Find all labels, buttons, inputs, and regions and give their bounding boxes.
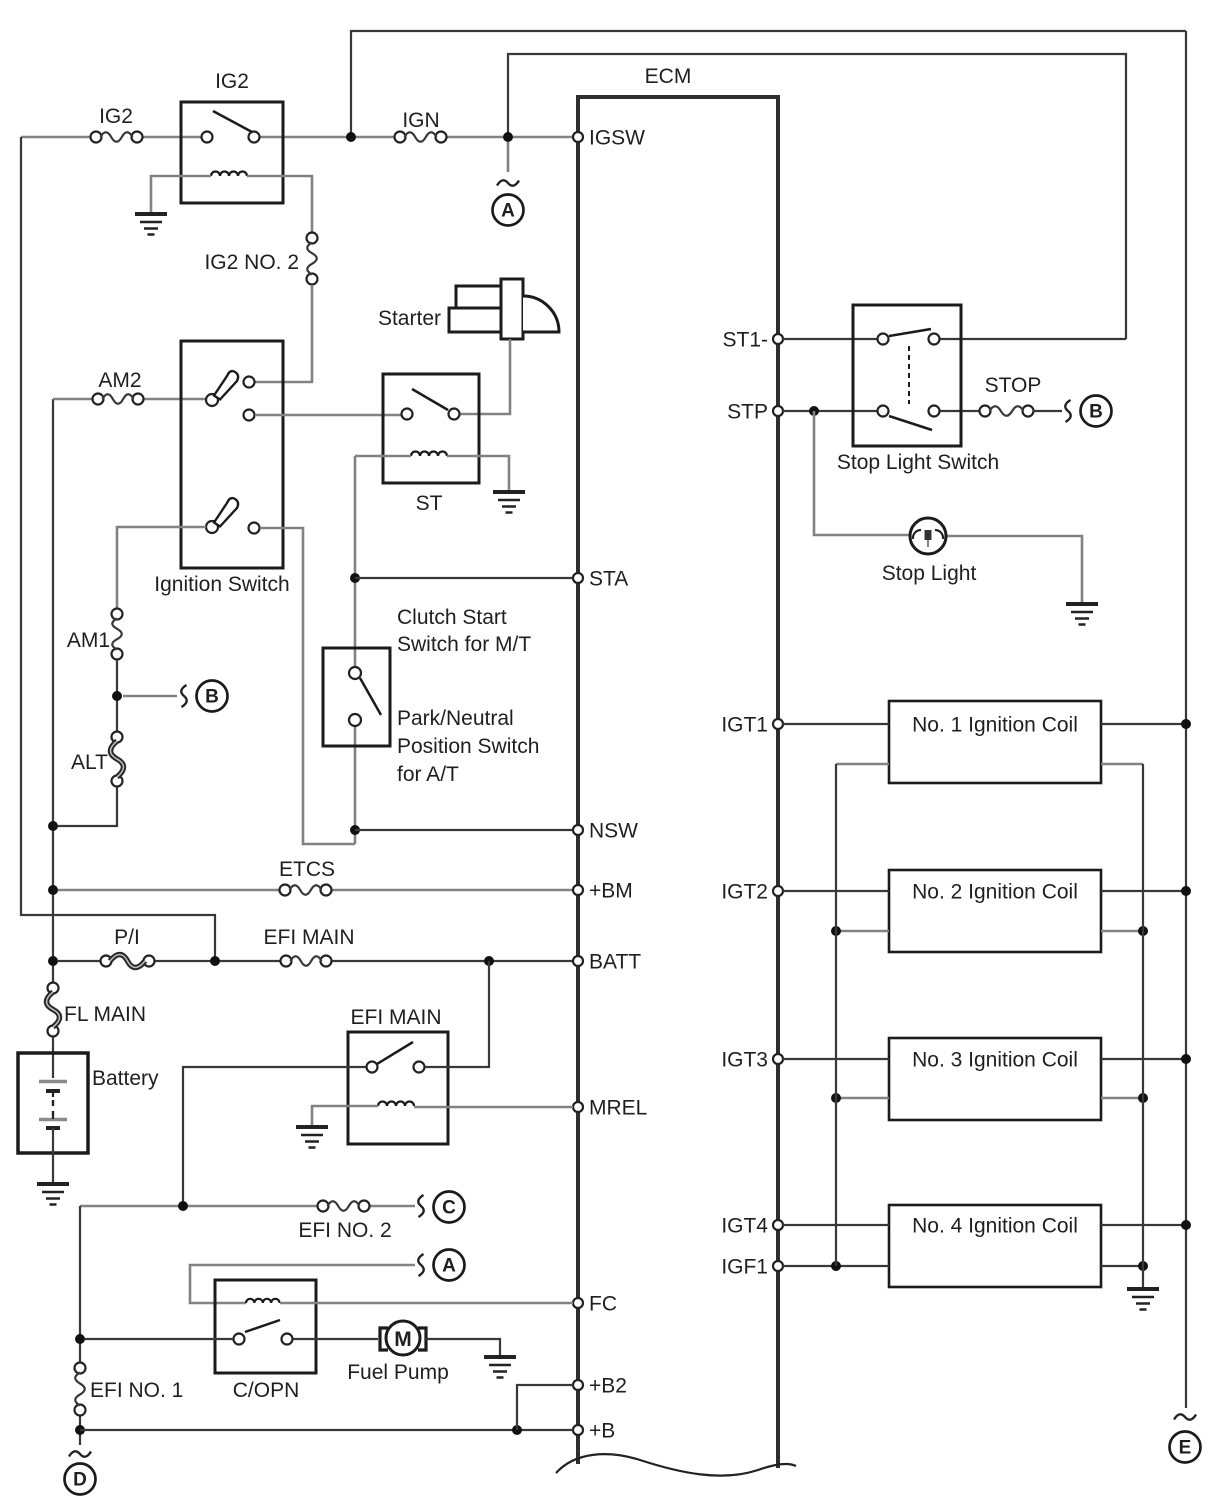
ground fuel pump xyxy=(484,1357,516,1378)
svg-text:No. 2 Ignition Coil: No. 2 Ignition Coil xyxy=(912,881,1078,904)
fuse AM2 xyxy=(93,369,144,405)
node +BM branch xyxy=(48,885,58,895)
fusible link ALT xyxy=(71,732,123,787)
ignition coil No. 1 xyxy=(889,701,1101,783)
ground stop light xyxy=(1066,604,1098,625)
pin IGT4 xyxy=(721,1215,783,1238)
svg-text:E: E xyxy=(1179,1438,1192,1459)
pin IGSW xyxy=(573,127,645,150)
wire ST relay coil to STA vertical xyxy=(355,455,411,458)
relay IG2 xyxy=(181,70,283,203)
svg-text:B: B xyxy=(205,687,219,708)
wire ignition coil 3 secondary terminals xyxy=(831,1093,1148,1103)
node +B junction xyxy=(75,1425,85,1435)
ECM box xyxy=(556,65,796,1476)
svg-text:BATT: BATT xyxy=(589,951,641,974)
wire ignition coil right bus to ground xyxy=(1142,764,1144,1287)
node EFI MAIN feed junction xyxy=(210,956,220,966)
wire C/OPN contact row xyxy=(85,1338,378,1340)
wire STA vertical through park/neutral switch xyxy=(354,456,357,844)
ground ignition coil bus xyxy=(1127,1289,1159,1310)
svg-text:A: A xyxy=(442,1256,456,1277)
connector A bottom xyxy=(190,1250,465,1304)
fuse EFI NO. 1 xyxy=(75,1363,184,1416)
svg-text:IG2 NO. 2: IG2 NO. 2 xyxy=(204,251,299,274)
svg-text:M: M xyxy=(394,1328,412,1351)
connector C xyxy=(418,1192,464,1223)
relay C/OPN xyxy=(215,1280,316,1402)
node +B2 branch xyxy=(512,1425,522,1435)
pin IGT2 xyxy=(721,881,783,904)
svg-text:ECM: ECM xyxy=(645,65,692,88)
wire IG2 relay coil left lead to ground xyxy=(151,176,211,212)
pin IGT1 xyxy=(721,714,783,737)
svg-text:IGT4: IGT4 xyxy=(721,1215,768,1238)
svg-text:NSW: NSW xyxy=(589,820,638,843)
svg-text:+BM: +BM xyxy=(589,880,633,903)
svg-text:No. 3 Ignition Coil: No. 3 Ignition Coil xyxy=(912,1049,1078,1072)
pin IGT3 xyxy=(721,1049,783,1072)
svg-text:ST1-: ST1- xyxy=(722,329,768,352)
pin STP xyxy=(727,401,783,424)
svg-text:ST: ST xyxy=(416,492,443,515)
pin STA xyxy=(573,568,628,591)
motor fuel pump xyxy=(347,1321,449,1384)
relay EFI MAIN xyxy=(348,1006,448,1144)
svg-text:+B2: +B2 xyxy=(589,1375,627,1398)
ignition coil No. 4 xyxy=(889,1205,1101,1287)
svg-text:Starter: Starter xyxy=(378,307,441,330)
svg-text:Fuel Pump: Fuel Pump xyxy=(347,1361,449,1384)
relay ST xyxy=(383,374,479,515)
svg-text:Park/Neutral: Park/Neutral xyxy=(397,707,514,730)
wire right-hand vertical bus to connector E xyxy=(1185,31,1187,1408)
ground ST relay xyxy=(493,492,525,513)
svg-text:IGT3: IGT3 xyxy=(721,1049,768,1072)
svg-text:Clutch Start: Clutch Start xyxy=(397,606,507,629)
connector A top xyxy=(493,142,524,226)
svg-text:B: B xyxy=(1089,402,1103,423)
svg-text:C/OPN: C/OPN xyxy=(233,1379,300,1402)
svg-text:IGF1: IGF1 xyxy=(721,1256,768,1279)
svg-text:A: A xyxy=(501,201,515,222)
switch clutch start / park neutral position xyxy=(323,606,539,786)
svg-text:IGT1: IGT1 xyxy=(721,714,768,737)
connector D xyxy=(65,1451,96,1494)
wire EFI NO.2 row xyxy=(80,1205,415,1208)
svg-text:D: D xyxy=(73,1470,87,1491)
node IGSW branch junction xyxy=(503,132,513,142)
svg-text:EFI NO. 2: EFI NO. 2 xyxy=(298,1219,391,1242)
connector B right xyxy=(1033,396,1112,427)
fuse STOP xyxy=(980,374,1042,417)
svg-text:No. 4 Ignition Coil: No. 4 Ignition Coil xyxy=(912,1215,1078,1238)
starter xyxy=(378,279,559,339)
lamp stop light xyxy=(882,518,977,585)
wire AM2 row xyxy=(53,398,206,401)
svg-text:C: C xyxy=(442,1198,456,1219)
svg-text:+B: +B xyxy=(589,1420,615,1443)
node EFI MAIN relay feed junction xyxy=(484,956,494,966)
svg-text:IGT2: IGT2 xyxy=(721,881,768,904)
wire starter to ST relay contact xyxy=(460,339,510,414)
wire BATT row xyxy=(58,960,573,962)
ground IG2 relay coil xyxy=(135,214,167,235)
wire NSW row xyxy=(355,829,573,831)
svg-text:IG2: IG2 xyxy=(215,70,249,93)
wire IG2 relay coil to IG2 NO.2 fuse xyxy=(247,176,312,232)
wire ignition coil 2 secondary terminals xyxy=(831,926,1148,936)
node STA junction xyxy=(350,573,360,583)
node STP branch xyxy=(809,406,819,416)
svg-text:STA: STA xyxy=(589,568,628,591)
wire STA row xyxy=(355,577,573,579)
wire IGF1 row xyxy=(783,1261,1148,1271)
wire battery to ground xyxy=(52,1128,54,1182)
wire ST relay coil to ground xyxy=(447,456,509,490)
svg-text:STP: STP xyxy=(727,401,768,424)
svg-text:IGN: IGN xyxy=(402,109,439,132)
fuse IG2 xyxy=(91,105,143,143)
node IGN branch junction xyxy=(346,132,356,142)
fuse ETCS xyxy=(279,858,335,896)
pin NSW xyxy=(573,820,638,843)
wire ignition switch ST contact to NSW node xyxy=(260,528,355,844)
pin MREL xyxy=(573,1097,647,1120)
wire ignition coil left bus xyxy=(835,764,837,1266)
pin ST1- xyxy=(722,329,783,352)
svg-text:No. 1 Ignition Coil: No. 1 Ignition Coil xyxy=(912,714,1078,737)
svg-text:AM2: AM2 xyxy=(98,369,141,392)
svg-text:ETCS: ETCS xyxy=(279,858,335,881)
wire AM2 feed vertical down to FL MAIN xyxy=(52,399,54,982)
wire EFI NO.1 feed vertical xyxy=(79,1206,81,1445)
svg-text:Stop Light: Stop Light xyxy=(882,562,977,585)
wire stop light branch xyxy=(814,411,1082,602)
svg-text:EFI NO. 1: EFI NO. 1 xyxy=(90,1379,183,1402)
wire ignition coil 1 secondary terminals xyxy=(836,763,1143,766)
pin +B2 xyxy=(573,1375,627,1398)
wire +B2 branch xyxy=(517,1385,573,1430)
svg-text:IG2: IG2 xyxy=(99,105,133,128)
node EFI NO.2 junction xyxy=(178,1201,188,1211)
ignition coil No. 3 xyxy=(889,1038,1101,1120)
svg-text:IGSW: IGSW xyxy=(589,127,645,150)
svg-text:for A/T: for A/T xyxy=(397,763,459,786)
wire IGT4 row xyxy=(783,1220,1191,1230)
wire ignition switch IG contact to ST relay xyxy=(255,414,401,417)
node branch to connector B xyxy=(112,691,122,701)
fuse IGN xyxy=(395,109,447,143)
wire +B row xyxy=(80,1429,573,1431)
wire EFI MAIN relay coil to ground xyxy=(312,1106,378,1125)
wire from IGSW node up and across to ST1- row xyxy=(508,54,1126,339)
connector B left xyxy=(123,681,228,712)
svg-text:ALT: ALT xyxy=(71,751,108,774)
svg-text:EFI MAIN: EFI MAIN xyxy=(350,1006,441,1029)
connector E xyxy=(1170,1414,1201,1462)
wire IGT2 row xyxy=(783,886,1191,896)
wire ignition switch ACC pivot to AM1 xyxy=(117,527,206,608)
svg-text:FL MAIN: FL MAIN xyxy=(64,1003,146,1026)
switch ignition switch xyxy=(154,341,289,596)
wire IG2 NO.2 fuse to ignition switch contact xyxy=(255,285,312,382)
pin BATT xyxy=(573,951,641,974)
fusible link P/I xyxy=(101,926,155,968)
fuse EFI MAIN xyxy=(263,926,354,967)
wire main ignition feed row IG2-IGN-IGSW xyxy=(21,136,573,139)
pin +BM xyxy=(573,880,633,903)
wire FL MAIN to battery xyxy=(52,1037,54,1078)
pin +B xyxy=(573,1420,615,1443)
wire IGT1 row xyxy=(783,719,1191,729)
fusible link FL MAIN xyxy=(47,983,147,1037)
svg-text:Position Switch: Position Switch xyxy=(397,735,539,758)
node NSW junction xyxy=(350,825,360,835)
wire fuel pump to ground xyxy=(426,1339,500,1355)
svg-text:AM1: AM1 xyxy=(67,629,110,652)
battery xyxy=(18,1053,159,1153)
wire MREL row xyxy=(414,1106,573,1109)
wire FC row xyxy=(280,1302,573,1305)
node ALT junction xyxy=(48,821,58,831)
svg-text:FC: FC xyxy=(589,1293,617,1316)
ground EFI MAIN relay coil xyxy=(296,1127,328,1148)
ignition coil No. 2 xyxy=(889,870,1101,952)
pin FC xyxy=(573,1293,617,1316)
wire IGT3 row xyxy=(783,1054,1191,1064)
wire top bus from IGN node across top to right coil bus xyxy=(351,31,1186,137)
node BATT branch xyxy=(48,956,58,966)
wire ST1- row xyxy=(783,338,1126,340)
wire +BM row xyxy=(58,889,573,892)
wire ALT to left feed vertical xyxy=(58,787,117,826)
svg-text:Ignition Switch: Ignition Switch xyxy=(154,573,289,596)
svg-text:MREL: MREL xyxy=(589,1097,647,1120)
svg-text:EFI MAIN: EFI MAIN xyxy=(263,926,354,949)
svg-text:P/I: P/I xyxy=(114,926,140,949)
wire AM1 to ALT xyxy=(116,660,118,731)
wire EFI MAIN relay contact to BATT node xyxy=(425,961,489,1067)
fuse IG2 NO. 2 xyxy=(204,233,317,285)
fuse EFI NO. 2 xyxy=(298,1201,391,1243)
switch stop light switch xyxy=(837,305,999,474)
svg-text:Stop Light Switch: Stop Light Switch xyxy=(837,451,999,474)
wire far-left vertical from IG2 fuse to BATT row xyxy=(21,137,215,961)
svg-text:STOP: STOP xyxy=(985,374,1042,397)
node C/OPN feed junction xyxy=(75,1334,85,1344)
wire STP row xyxy=(783,410,980,412)
svg-text:Switch for M/T: Switch for M/T xyxy=(397,633,531,656)
pin IGF1 xyxy=(721,1256,783,1279)
ground battery xyxy=(37,1184,69,1205)
wire EFI MAIN relay contact to EFI NO.2 node xyxy=(183,1067,366,1206)
fuse AM1 xyxy=(67,609,123,660)
svg-text:Battery: Battery xyxy=(92,1067,159,1090)
